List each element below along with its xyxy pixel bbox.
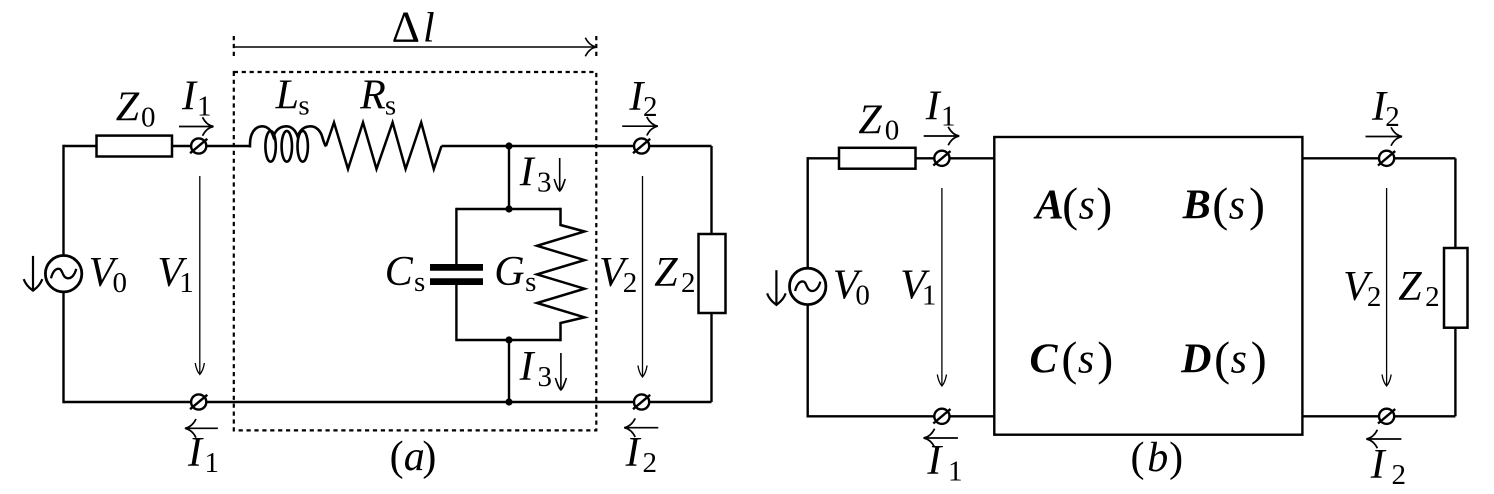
svg-text:I: I (519, 344, 536, 390)
dashed box lumped section (a) (234, 72, 597, 430)
down arrow at source (a) (24, 256, 43, 291)
svg-text:I: I (519, 149, 536, 195)
svg-text:s: s (1078, 337, 1094, 383)
svg-text:l: l (423, 6, 435, 52)
inductor Ls (250, 126, 326, 161)
svg-text:s: s (298, 90, 309, 122)
label I1 top (a) (181, 74, 212, 123)
terminal port1 bottom (a) (190, 394, 207, 409)
arrow I2 top (b) (1366, 127, 1403, 146)
label B(s) (1182, 178, 1265, 231)
svg-text:3: 3 (538, 361, 553, 393)
label I2 top (b) (1371, 84, 1400, 133)
svg-text:(: ( (1061, 333, 1077, 386)
svg-text:B: B (1182, 182, 1211, 228)
svg-text:2: 2 (643, 91, 658, 123)
arrow I1 bottom (a) (185, 419, 218, 438)
terminal port1 top (a) (190, 138, 207, 153)
svg-text:I: I (181, 74, 198, 120)
two-port network box ABCD (994, 137, 1302, 435)
wire: (a) bottom rail (64, 401, 712, 403)
wire: capacitor leads (a) (455, 208, 457, 341)
node junction top wire (a) (505, 142, 512, 149)
arrow I1 top (a) (179, 117, 214, 136)
label Z2 (a) (654, 250, 695, 299)
svg-text:Z: Z (858, 98, 882, 144)
impedance Z2 (b) (1444, 248, 1468, 328)
svg-text:I: I (187, 430, 204, 476)
svg-text:Z: Z (654, 250, 678, 296)
wire: parallel bottom rail (a) (456, 339, 560, 341)
wire: (b) right vertical (1454, 158, 1456, 416)
svg-text:b: b (1147, 435, 1168, 481)
svg-text:C: C (1030, 337, 1059, 383)
svg-text:1: 1 (179, 267, 194, 299)
svg-text:0: 0 (885, 115, 900, 147)
wire: (a) left vertical (62, 145, 64, 403)
svg-text:3: 3 (537, 166, 552, 198)
svg-text:I: I (925, 83, 942, 129)
svg-text:0: 0 (855, 280, 870, 312)
impedance Z0 (b) (839, 148, 916, 169)
source V0 (b) (790, 268, 826, 304)
label I1 bottom (a) (187, 430, 219, 479)
label D(s) (1180, 333, 1267, 386)
wire: (a) top rail (64, 145, 712, 147)
terminal port1 bottom (b) (933, 409, 950, 424)
svg-text:): ) (422, 434, 436, 480)
terminal port1 top (b) (933, 151, 950, 166)
svg-text:): ) (1096, 178, 1112, 231)
svg-text:1: 1 (948, 455, 963, 487)
impedance Z2 (a) (699, 234, 726, 313)
node junction shunt top (a) (505, 205, 512, 212)
label Z0 (b) (858, 98, 899, 147)
arrow I2 bottom (a) (624, 418, 658, 437)
terminal port2 top (b) (1378, 151, 1395, 166)
svg-text:2: 2 (643, 447, 658, 479)
svg-text:Z: Z (1398, 264, 1422, 310)
svg-text:1: 1 (922, 280, 937, 312)
terminal port2 top (a) (633, 138, 650, 153)
svg-text:2: 2 (1385, 101, 1400, 133)
svg-text:1: 1 (205, 447, 220, 479)
arrow V2 (a) (638, 176, 647, 377)
label Ls (275, 73, 310, 122)
resistor Rs (326, 123, 442, 170)
svg-text:(: ( (390, 434, 404, 480)
wire: shunt stem bottom (a) (508, 340, 510, 402)
arrow I2 bottom (b) (1366, 430, 1401, 449)
label (a) (390, 434, 437, 480)
down arrow I3 bottom (a) (555, 353, 566, 390)
label I1 top (b) (925, 83, 956, 132)
svg-text:Δ: Δ (392, 3, 420, 52)
arrow I2 top (a) (622, 117, 658, 136)
svg-text:C: C (385, 249, 414, 295)
label I3 bottom (a) (519, 344, 552, 393)
svg-text:A: A (1033, 182, 1064, 228)
dimension line dl (234, 38, 597, 57)
svg-text:2: 2 (1425, 281, 1440, 313)
label I2 bottom (a) (625, 430, 657, 479)
svg-text:2: 2 (623, 267, 638, 299)
svg-text:0: 0 (141, 102, 156, 134)
svg-text:2: 2 (1367, 281, 1382, 313)
label V1 (b) (900, 263, 936, 312)
label I2 bottom (b) (1370, 442, 1406, 491)
svg-text:s: s (525, 266, 536, 298)
dimension ticks dl (234, 36, 597, 58)
svg-text:L: L (275, 73, 299, 119)
source V0 (a) (45, 256, 81, 292)
svg-text:s: s (1229, 182, 1245, 228)
wire: shunt stem top (a) (508, 146, 510, 209)
svg-text:0: 0 (113, 267, 128, 299)
svg-text:I: I (1370, 442, 1387, 488)
down arrow I3 top (a) (554, 158, 565, 191)
label I3 top (a) (519, 149, 552, 198)
label V2 (a) (599, 250, 637, 299)
svg-text:(: ( (1214, 333, 1230, 386)
svg-text:I: I (926, 438, 943, 484)
svg-text:1: 1 (197, 91, 212, 123)
label Z2 (b) (1398, 264, 1439, 313)
arrow V2 (b) (1382, 188, 1391, 386)
label I1 bottom (b) (926, 438, 962, 487)
label V0 (a) (89, 250, 127, 299)
svg-text:2: 2 (1392, 459, 1407, 491)
node junction shunt bottom (a) (505, 336, 512, 343)
svg-text:I: I (625, 430, 642, 476)
label V0 (b) (833, 263, 870, 312)
wire: (b) left vertical (807, 157, 809, 417)
label V1 (a) (157, 250, 193, 299)
label C(s) (1030, 333, 1114, 386)
down arrow at source (b) (767, 270, 786, 305)
svg-text:): ) (1097, 333, 1113, 386)
label Rs (359, 73, 396, 122)
label Gs (494, 249, 536, 298)
svg-text:2: 2 (681, 267, 696, 299)
svg-text:s: s (1231, 337, 1247, 383)
svg-text:s: s (385, 90, 396, 122)
label Delta-l (392, 3, 435, 52)
svg-text:): ) (1249, 178, 1265, 231)
label V2 (b) (1343, 264, 1381, 313)
label (b) (1131, 435, 1184, 481)
impedance Z0 (a) (97, 136, 173, 157)
label I2 top (a) (628, 74, 657, 123)
svg-text:(: ( (1131, 435, 1145, 481)
arrow V1 (a) (195, 176, 204, 375)
svg-text:Z: Z (116, 84, 140, 130)
terminal port2 bottom (b) (1378, 409, 1395, 424)
label A(s) (1033, 178, 1113, 231)
svg-text:(: ( (1062, 178, 1078, 231)
wire: (b) top rail (808, 157, 1456, 159)
svg-text:D: D (1180, 337, 1211, 383)
arrow I1 top (b) (924, 127, 960, 146)
wire: (a) right vertical (710, 146, 712, 402)
arrow V1 (b) (937, 188, 946, 386)
wire: parallel top rail (a) (456, 208, 560, 210)
svg-text:): ) (1169, 435, 1183, 481)
label Cs (385, 249, 426, 298)
resistor (conductance) Gs (537, 208, 585, 341)
svg-text:G: G (494, 249, 524, 295)
terminal port2 bottom (a) (633, 394, 650, 409)
node junction bottom wire (a) (505, 398, 512, 405)
wire: (b) bottom rail (808, 415, 1456, 417)
svg-text:): ) (1251, 333, 1267, 386)
label Z0 (a) (116, 84, 156, 133)
svg-text:s: s (1079, 182, 1095, 228)
arrow I1 bottom (b) (924, 429, 958, 448)
svg-text:(: ( (1212, 178, 1228, 231)
svg-text:R: R (359, 73, 386, 119)
capacitor Cs (430, 267, 483, 281)
svg-text:s: s (414, 266, 425, 298)
